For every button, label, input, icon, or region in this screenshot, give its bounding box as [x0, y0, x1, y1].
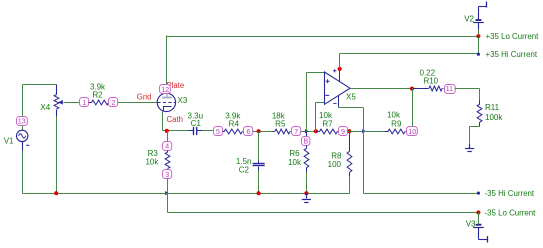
svg-text:R11: R11: [485, 103, 500, 112]
junction R6 rail: [304, 191, 308, 195]
svg-text:13: 13: [18, 118, 26, 125]
R11 bottom lead: [479, 123, 481, 127]
svg-text:V1: V1: [4, 137, 14, 146]
svg-text:5: 5: [216, 129, 220, 136]
resistor R9 body: [388, 129, 405, 134]
wire -supply right: [339, 107, 364, 109]
wire node6 to R5: [253, 131, 273, 133]
svg-text:Cath: Cath: [167, 115, 183, 124]
wire -35 Lo line: [168, 212, 479, 214]
svg-text:12: 12: [161, 87, 169, 94]
node 2: [109, 98, 118, 107]
wire X4 wiper to node 1: [64, 102, 81, 104]
voltage source V1: [17, 130, 30, 145]
svg-text:10: 10: [408, 129, 416, 136]
svg-text:R2: R2: [92, 90, 103, 99]
R4 left lead: [223, 131, 225, 133]
svg-text:7: 7: [294, 129, 298, 136]
-supply minus mark: [333, 102, 336, 104]
junction C2 rail: [257, 191, 261, 195]
V1 bottom lead: [22, 142, 24, 151]
svg-text:R5: R5: [275, 119, 286, 128]
node 5: [214, 127, 223, 136]
capacitor C2: [253, 164, 265, 166]
svg-text:+35 Hi Current: +35 Hi Current: [486, 50, 538, 59]
svg-text:6: 6: [247, 129, 251, 136]
wire to node 4: [167, 131, 169, 142]
wire plate to +35 Lo: [166, 36, 168, 86]
svg-text:11: 11: [446, 86, 453, 93]
wire cathode down: [162, 112, 164, 131]
wire node2 to grid: [118, 102, 158, 104]
C2 bottom lead: [258, 167, 260, 171]
wire R6 to rail: [306, 172, 308, 194]
svg-text:V2: V2: [464, 14, 474, 23]
svg-text:R8: R8: [331, 151, 342, 160]
junction inverting tap: [314, 129, 318, 133]
R7 left lead: [316, 131, 320, 133]
pin marker R6 top: [305, 129, 309, 133]
wire node11 right: [455, 88, 480, 90]
wire output to node 10: [412, 89, 414, 128]
wire to C2: [258, 132, 260, 161]
triode X3: [157, 93, 175, 111]
wire -35 Hi line: [364, 193, 479, 195]
X5 +supply pin: [339, 70, 341, 82]
R9 left lead: [385, 131, 389, 133]
junction node9 R8: [347, 129, 351, 133]
svg-text:-35 Lo Current: -35 Lo Current: [485, 209, 537, 218]
X4 wiper arrow: [58, 100, 63, 105]
R6 top lead: [306, 132, 308, 137]
ground stem rail: [306, 194, 308, 199]
X4 top lead: [56, 85, 58, 95]
svg-text:R10: R10: [423, 77, 438, 86]
wire to -input: [316, 102, 325, 104]
wire to +input: [307, 72, 325, 74]
wire node7 to R7: [301, 131, 316, 133]
wire X4 to rail: [56, 117, 58, 194]
svg-text:10k: 10k: [145, 157, 159, 166]
wire cathode to C1: [163, 130, 189, 132]
wire ground rail: [23, 193, 350, 195]
node 10: [407, 127, 418, 136]
svg-text:X5: X5: [346, 93, 356, 102]
resistor R3 body: [165, 152, 170, 169]
svg-text:Grid: Grid: [137, 92, 152, 101]
wire inverting input vertical: [315, 103, 317, 132]
svg-text:10k: 10k: [288, 158, 302, 167]
C1 left lead: [189, 130, 194, 132]
node B: [302, 137, 310, 146]
wire +35 Lo to Hi: [478, 37, 480, 55]
wire V1 top: [22, 85, 24, 131]
R3 top lead: [167, 151, 169, 153]
svg-text:4: 4: [165, 143, 169, 150]
svg-text:9: 9: [341, 129, 345, 136]
terminal -35 Hi: [477, 192, 480, 195]
wire node3 to rail: [167, 179, 169, 194]
svg-text:2: 2: [112, 100, 116, 107]
node 3: [163, 170, 172, 179]
svg-text:+35 Lo Current: +35 Lo Current: [486, 32, 540, 41]
node 4: [163, 142, 172, 151]
R8 bottom lead: [349, 173, 351, 177]
wire R11 jog: [470, 126, 480, 128]
wire R8 to rail: [349, 177, 351, 194]
svg-text:-35 Hi Current: -35 Hi Current: [485, 189, 535, 198]
svg-text:C2: C2: [239, 165, 250, 174]
potentiometer X4 body: [54, 95, 59, 110]
wire C1 to node5: [203, 130, 214, 132]
X5 -supply pin: [338, 96, 340, 108]
wire -supply down: [363, 108, 365, 194]
ground under R11: [465, 149, 474, 152]
junction +35 Lo: [476, 34, 480, 38]
resistor R7 body: [320, 129, 338, 134]
wire R11 to ground: [469, 127, 471, 145]
resistor R6 body: [304, 148, 309, 167]
svg-text:C1: C1: [191, 119, 202, 128]
resistor R11 body: [477, 104, 482, 122]
wire V2 to +35 Lo: [478, 30, 480, 37]
C2 top lead: [258, 161, 260, 164]
junction X4 rail: [54, 191, 58, 195]
wire output: [351, 88, 413, 90]
resistor R10 body: [429, 86, 442, 91]
wire to R9: [364, 131, 385, 133]
node 11: [445, 85, 456, 94]
+supply plus mark: [333, 69, 336, 72]
R5 left lead: [273, 131, 275, 133]
battery V3: [473, 213, 487, 243]
node 13: [17, 117, 28, 126]
node 1: [80, 98, 89, 107]
junction C2 top: [257, 129, 261, 133]
svg-text:R7: R7: [322, 119, 333, 128]
C1 right lead: [198, 130, 203, 132]
svg-text:X3: X3: [178, 96, 188, 105]
pin marker R9 row crossing: [362, 129, 366, 133]
X4 bottom lead: [56, 110, 58, 117]
wire node9 right: [348, 131, 364, 133]
junction cathode node: [165, 129, 169, 133]
R6 bottom lead: [306, 168, 308, 172]
node 7: [292, 127, 301, 136]
junction output: [410, 87, 414, 91]
battery V2: [473, 2, 486, 30]
node 9: [339, 127, 348, 136]
svg-text:R4: R4: [229, 119, 240, 128]
node 12: [160, 85, 171, 94]
node 6: [244, 127, 253, 136]
wire V1 to X4 top: [23, 84, 57, 86]
R2 left lead: [89, 102, 92, 104]
svg-text:V3: V3: [466, 220, 476, 229]
wire noninverting input: [306, 73, 308, 132]
R11 top lead: [479, 101, 481, 105]
wire rail to -35 Lo: [167, 194, 169, 213]
wire +35 Lo line: [167, 36, 479, 38]
R10 left lead: [414, 88, 429, 90]
wire +supply up: [339, 54, 341, 69]
capacitor C1: [194, 127, 197, 135]
svg-text:B: B: [303, 139, 308, 146]
ground symbol rail: [302, 200, 311, 203]
resistor R5 body: [275, 129, 290, 134]
svg-text:100k: 100k: [485, 113, 503, 122]
resistor R4 body: [224, 129, 242, 134]
terminal +35 Hi: [477, 53, 480, 56]
pin marker node3-rail: [165, 191, 169, 195]
wire C2 to rail: [258, 171, 260, 194]
resistor R2 body: [92, 100, 109, 105]
svg-text:3: 3: [165, 172, 169, 179]
wire down to R11: [479, 89, 481, 101]
resistor R8 body: [347, 151, 352, 172]
R8 top lead: [349, 132, 351, 152]
junction +supply: [338, 67, 342, 71]
op-amp X5: [325, 72, 351, 104]
svg-text:100: 100: [328, 160, 342, 169]
svg-text:X4: X4: [40, 103, 50, 112]
junction -35 Lo: [476, 210, 480, 214]
svg-text:1: 1: [83, 100, 87, 107]
svg-text:R9: R9: [391, 119, 402, 128]
wire +35 Hi line: [340, 53, 479, 55]
ground stem: [469, 145, 471, 149]
wire V1 to rail: [22, 151, 24, 194]
